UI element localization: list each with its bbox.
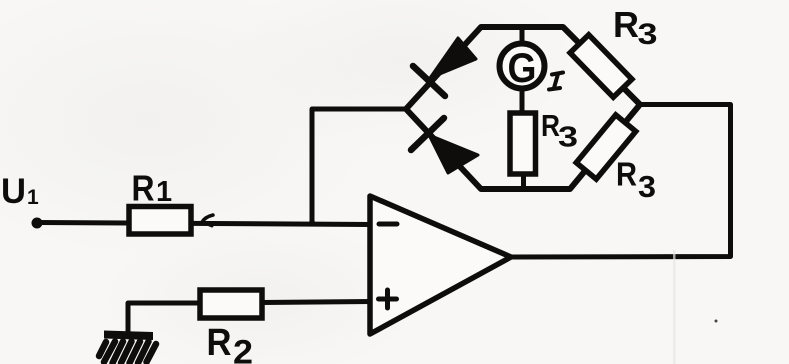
svg-text:R: R [613, 4, 639, 45]
svg-text:U: U [1, 171, 26, 211]
svg-text:1: 1 [27, 186, 39, 209]
svg-text:3: 3 [638, 18, 658, 51]
svg-text:R: R [616, 156, 637, 193]
svg-text:G: G [508, 44, 537, 91]
svg-text:1: 1 [156, 176, 172, 208]
svg-text:R: R [207, 322, 232, 364]
svg-text:2: 2 [233, 334, 253, 364]
svg-text:3: 3 [638, 169, 656, 204]
svg-text:R: R [132, 168, 155, 209]
svg-text:3: 3 [558, 122, 578, 154]
